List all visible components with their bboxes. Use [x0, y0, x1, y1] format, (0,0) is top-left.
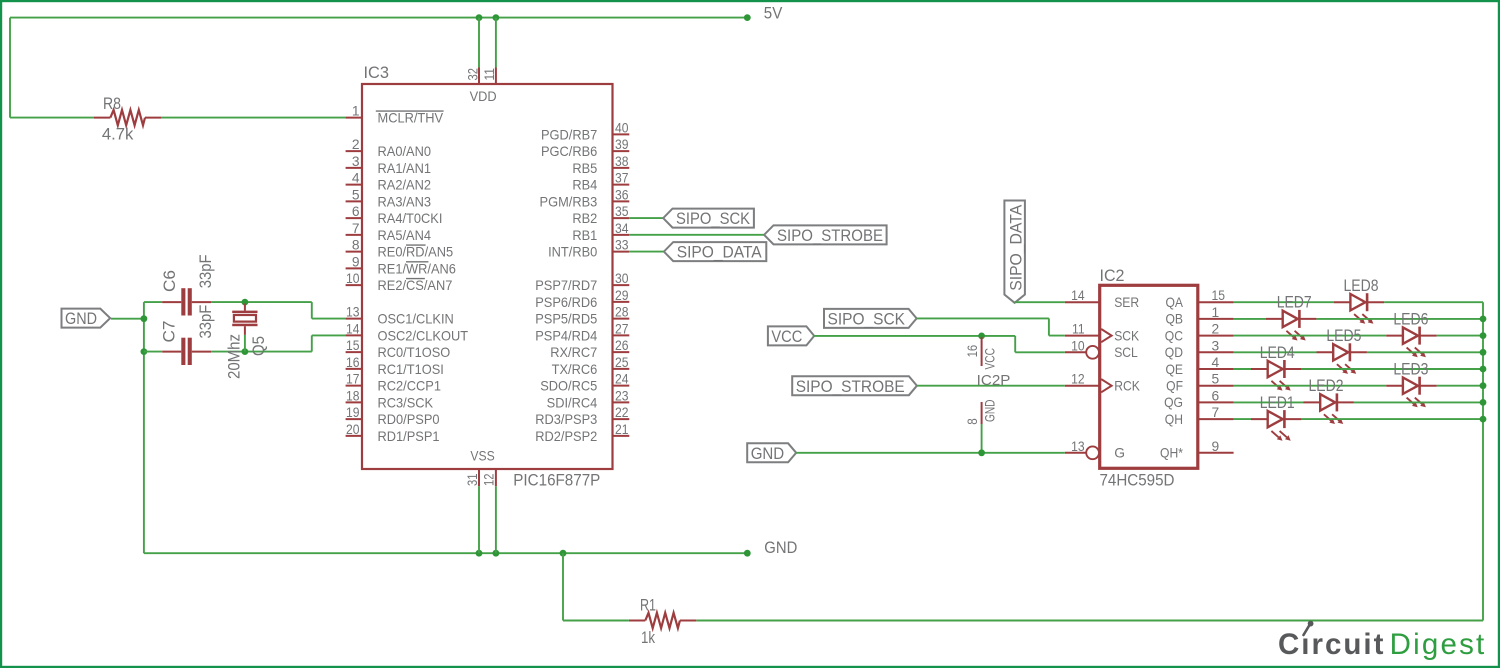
supply flag GND at IC2 [747, 443, 796, 463]
IC body IC2 74HC595D [1100, 285, 1198, 468]
svg-text:RD2/PSP2: RD2/PSP2 [535, 429, 597, 444]
svg-text:PSP4/RD4: PSP4/RD4 [535, 328, 597, 343]
label LED4 [1260, 343, 1295, 362]
svg-text:R1: R1 [640, 595, 656, 614]
svg-text:RD1/PSP1: RD1/PSP1 [378, 429, 440, 444]
svg-text:LED1: LED1 [1260, 393, 1295, 412]
svg-text:33pF: 33pF [196, 305, 215, 339]
IC3 pin 7 RA5/AN4 [346, 221, 432, 243]
svg-text:RB2: RB2 [572, 211, 597, 226]
IC3 pin 32 VDD [465, 68, 480, 85]
label LED7 [1277, 293, 1312, 312]
svg-text:SIPO_STROBE: SIPO_STROBE [796, 377, 905, 396]
svg-text:QB: QB [1165, 312, 1183, 327]
wire SIPO_DATA to SER [1015, 301, 1065, 303]
capacitor C6 [162, 288, 211, 315]
net flag SIPO_DATA at IC3 [664, 242, 766, 262]
label R1 value 1k [641, 628, 655, 647]
diode LED2 [1304, 393, 1354, 424]
svg-text:6: 6 [352, 204, 360, 219]
svg-text:2: 2 [352, 137, 360, 152]
svg-text:17: 17 [346, 372, 360, 387]
svg-text:PIC16F877P: PIC16F877P [513, 471, 600, 490]
svg-text:GND: GND [764, 538, 797, 557]
net flag SIPO_STROBE at IC3 [764, 225, 887, 245]
svg-text:GND: GND [65, 309, 97, 328]
svg-text:30: 30 [615, 271, 629, 286]
svg-text:QH: QH [1165, 412, 1183, 427]
svg-text:4: 4 [1212, 355, 1220, 370]
wire VSS pins to GND rail [479, 486, 496, 553]
svg-text:RB4: RB4 [572, 178, 597, 193]
net flag SIPO_SCK at IC2 [824, 309, 917, 329]
IC2 pin 2 QC [1165, 322, 1234, 344]
wire SIPO_SCK to SCK pin [917, 318, 1065, 335]
junction 5V pin11 [493, 14, 500, 21]
svg-text:RB1: RB1 [572, 228, 597, 243]
wire GND to G pin [796, 452, 1065, 454]
svg-text:QD: QD [1165, 345, 1183, 360]
label C7 value 33pF [196, 305, 215, 339]
IC3 pin 8 RE0/RD/AN5 [346, 238, 454, 260]
net flag SIPO_STROBE at IC2 [792, 376, 917, 396]
IC3 pin 20 RD1/PSP1 [346, 422, 440, 444]
svg-text:25: 25 [615, 355, 629, 370]
svg-text:LED4: LED4 [1260, 343, 1295, 362]
diode LED1 [1251, 410, 1301, 441]
svg-text:RA1/AN1: RA1/AN1 [378, 161, 431, 176]
svg-text:Cırcuit: Cırcuit [1278, 628, 1385, 661]
svg-text:IC3: IC3 [364, 63, 390, 82]
wire 5V rail [10, 17, 747, 19]
IC3 pin 3 RA1/AN1 [346, 154, 431, 176]
wire C6 rail [144, 302, 346, 319]
svg-text:G: G [1114, 446, 1125, 461]
svg-text:RC1/T1OSI: RC1/T1OSI [378, 362, 444, 377]
junction C7 left [141, 348, 148, 355]
svg-text:VSS: VSS [470, 449, 494, 464]
svg-text:LED3: LED3 [1393, 360, 1428, 379]
svg-text:20: 20 [346, 422, 360, 437]
svg-text:8: 8 [352, 238, 360, 253]
IC2 pin 6 QG [1164, 388, 1233, 410]
label IC2 [1100, 266, 1125, 285]
svg-text:5: 5 [1212, 372, 1220, 387]
svg-text:3: 3 [352, 154, 360, 169]
svg-text:PSP5/RD5: PSP5/RD5 [535, 312, 597, 327]
svg-text:INT/RB0: INT/RB0 [548, 245, 598, 260]
svg-text:RCK: RCK [1114, 379, 1140, 394]
svg-text:35: 35 [615, 204, 629, 219]
svg-text:24: 24 [615, 372, 629, 387]
svg-text:RA3/AN3: RA3/AN3 [378, 194, 432, 209]
svg-text:LED6: LED6 [1393, 309, 1428, 328]
logo CircuitDigest [1278, 621, 1486, 661]
svg-text:LED7: LED7 [1277, 293, 1312, 312]
svg-text:12: 12 [1071, 372, 1085, 387]
svg-text:16: 16 [346, 355, 360, 370]
IC3 pin 14 OSC2/CLKOUT [346, 321, 469, 343]
svg-text:Digest: Digest [1390, 628, 1487, 661]
wire INT/RB0 to SIPO_DATA [629, 251, 664, 253]
svg-text:31: 31 [465, 474, 480, 487]
svg-text:RA5/AN4: RA5/AN4 [378, 228, 432, 243]
svg-text:PSP7/RD7: PSP7/RD7 [535, 278, 597, 293]
wire LED7 row [1234, 318, 1483, 320]
label PIC16F877P [513, 471, 600, 490]
IC3 pin 21 RD2/PSP2 [535, 422, 629, 444]
IC3 pin 40 PGD/RB7 [541, 120, 629, 142]
wire bus to R1 [696, 620, 1483, 622]
IC2 pin 3 QD [1165, 338, 1234, 360]
junction VCC pin16 [978, 333, 985, 340]
svg-text:IC2P: IC2P [977, 373, 1011, 389]
IC3 pin 30 PSP7/RD7 [535, 271, 629, 293]
svg-text:RE0/RD/AN5: RE0/RD/AN5 [378, 245, 454, 260]
svg-text:33: 33 [615, 238, 629, 253]
svg-text:14: 14 [1071, 288, 1085, 303]
svg-text:3: 3 [1212, 338, 1220, 353]
svg-text:18: 18 [346, 388, 360, 403]
svg-text:SER: SER [1114, 295, 1139, 310]
IC3 pin 31 VSS [465, 469, 480, 486]
IC3 pin 17 RC2/CCP1 [346, 372, 441, 394]
junction GND-C6C7 node A [141, 315, 148, 322]
IC3 pin 4 RA2/AN2 [346, 171, 431, 193]
svg-text:RA0/AN0: RA0/AN0 [378, 144, 432, 159]
svg-text:TX/RC6: TX/RC6 [552, 362, 598, 377]
svg-text:36: 36 [615, 187, 629, 202]
resistor R1 [629, 613, 696, 628]
svg-text:2: 2 [1212, 322, 1220, 337]
junction bus row 3 [1480, 349, 1487, 356]
svg-text:LED2: LED2 [1309, 376, 1344, 395]
junction bus row 7 [1480, 416, 1487, 423]
svg-text:GND: GND [751, 444, 785, 463]
wire C7 rail [144, 335, 346, 351]
label R8 value 4.7k [102, 125, 134, 144]
svg-text:9: 9 [352, 254, 360, 269]
svg-text:VCC: VCC [983, 348, 998, 370]
junction GND-R1 branch [560, 550, 567, 557]
svg-text:7: 7 [1212, 405, 1220, 420]
IC3 pin 12 VSS [482, 469, 497, 486]
label Q5 [249, 336, 268, 356]
IC3 pin 28 PSP5/RD5 [535, 305, 629, 327]
svg-text:QF: QF [1166, 379, 1183, 394]
wire GND flag to node [111, 318, 144, 320]
svg-text:SIPO_SCK: SIPO_SCK [828, 310, 906, 329]
svg-text:VCC: VCC [771, 327, 802, 346]
IC2 pin 4 QE [1165, 355, 1233, 377]
svg-text:SCK: SCK [1114, 328, 1140, 343]
junction bus row 4 [1480, 366, 1487, 373]
supply flag GND left [62, 309, 111, 329]
wire LED cathode bus [1482, 302, 1484, 620]
label LED1 [1260, 393, 1295, 412]
svg-text:SIPO_STROBE: SIPO_STROBE [777, 226, 883, 245]
op-amp-style IC body U IC3 [362, 84, 613, 469]
svg-text:6: 6 [1212, 388, 1220, 403]
IC3 pin 23 SDI/RC4 [547, 388, 630, 410]
label Q5 value 20Mhz [225, 334, 244, 379]
svg-text:13: 13 [1071, 439, 1085, 454]
svg-text:LED5: LED5 [1326, 326, 1361, 345]
svg-text:R8: R8 [103, 94, 121, 113]
wire RB2 to SIPO_SCK [629, 217, 663, 219]
svg-text:33pF: 33pF [196, 254, 215, 288]
svg-text:1: 1 [1212, 305, 1220, 320]
svg-text:10: 10 [346, 271, 360, 286]
svg-text:28: 28 [615, 305, 629, 320]
junction bus row 6 [1480, 399, 1487, 406]
IC2 pin 10 SCL [1065, 338, 1138, 360]
net flag SIPO_SCK at IC3 [663, 209, 754, 229]
svg-text:RD0/PSP0: RD0/PSP0 [378, 412, 440, 427]
svg-text:11: 11 [482, 68, 497, 81]
junction OSC1-crystal [242, 299, 249, 306]
svg-text:4: 4 [352, 171, 360, 186]
svg-text:MCLR/THV: MCLR/THV [378, 111, 444, 126]
svg-text:SIPO_SCK: SIPO_SCK [676, 209, 751, 228]
IC3 pin 38 RB5 [572, 154, 629, 176]
svg-text:PGC/RB6: PGC/RB6 [541, 144, 598, 159]
IC3 pin 10 RE2/CS/AN7 [346, 271, 453, 293]
label LED3 [1393, 360, 1428, 379]
IC3 pin 11 VDD [482, 68, 497, 85]
wire SIPO_STROBE to RCK pin [917, 385, 1065, 387]
svg-text:SDO/RC5: SDO/RC5 [540, 379, 597, 394]
svg-text:74HC595D: 74HC595D [1100, 471, 1175, 490]
label C6 value 33pF [196, 254, 215, 288]
IC3 pin 2 RA0/AN0 [346, 137, 432, 159]
svg-text:QH*: QH* [1160, 446, 1183, 461]
label LED6 [1393, 309, 1428, 328]
wire LED1 row [1234, 418, 1483, 420]
IC3 pin 19 RD0/PSP0 [346, 405, 440, 427]
svg-text:12: 12 [482, 474, 497, 487]
svg-text:SIPO_DATA: SIPO_DATA [677, 243, 763, 262]
IC3 pin 1 MCLR/THV [346, 104, 444, 126]
diode LED3 [1386, 377, 1436, 408]
wire LED4 row [1234, 368, 1483, 370]
svg-text:PGM/RB3: PGM/RB3 [540, 194, 598, 209]
IC3 pin 22 RD3/PSP3 [535, 405, 629, 427]
svg-text:10: 10 [1071, 338, 1085, 353]
svg-text:38: 38 [615, 154, 629, 169]
IC2P pin 8 GND [965, 399, 998, 424]
resistor R8 [94, 110, 161, 125]
svg-text:PGD/RB7: PGD/RB7 [541, 127, 597, 142]
IC3 pin 37 RB4 [572, 171, 629, 193]
IC2 pin 1 QB [1165, 305, 1233, 327]
svg-text:16: 16 [965, 345, 980, 358]
svg-text:39: 39 [615, 137, 629, 152]
label LED8 [1344, 276, 1379, 295]
svg-text:VDD: VDD [470, 89, 497, 104]
wire R1 to GND rail [563, 553, 629, 620]
supply flag VCC [768, 326, 814, 346]
svg-text:29: 29 [615, 288, 629, 303]
IC3 pin 5 RA3/AN3 [346, 187, 432, 209]
IC3 pin 34 RB1 [572, 221, 629, 243]
svg-text:RA4/T0CKI: RA4/T0CKI [378, 211, 443, 226]
svg-text:21: 21 [615, 422, 629, 437]
junction 5V pin32 [476, 14, 483, 21]
svg-text:5V: 5V [764, 4, 783, 23]
junction GND end [744, 550, 751, 557]
IC2 pin 13 G [1065, 439, 1125, 461]
wire R8 to IC3 pin1 [161, 117, 345, 119]
label 74HC595D [1100, 471, 1175, 490]
wire VCC to SCL pin [814, 336, 1065, 352]
svg-text:5: 5 [352, 187, 360, 202]
IC3 pin 16 RC1/T1OSI [346, 355, 444, 377]
junction bus row 5 [1480, 382, 1487, 389]
svg-text:9: 9 [1212, 439, 1220, 454]
svg-text:RC2/CCP1: RC2/CCP1 [378, 379, 441, 394]
label R8 [103, 94, 121, 113]
svg-text:1: 1 [352, 104, 360, 119]
svg-text:QE: QE [1165, 362, 1183, 377]
wire VDD pins to 5V rail [479, 18, 496, 68]
junction GND pin8 [978, 449, 985, 456]
IC2 pin 11 SCK [1065, 322, 1140, 344]
label LED5 [1326, 326, 1361, 345]
wire LED2 row [1234, 401, 1483, 403]
crystal Q5 [232, 304, 257, 335]
diode LED4 [1251, 360, 1301, 391]
label IC2P [977, 373, 1011, 389]
IC3 pin 18 RC3/SCK [346, 388, 434, 410]
junction bus row 2 [1480, 332, 1487, 339]
svg-text:RA2/AN2: RA2/AN2 [378, 178, 431, 193]
svg-text:26: 26 [615, 338, 629, 353]
junction OSC2-crystal [242, 348, 249, 355]
wire LED3 row [1234, 385, 1483, 387]
svg-text:RD3/PSP3: RD3/PSP3 [535, 412, 597, 427]
svg-text:8: 8 [965, 418, 980, 425]
wire LED8 row [1234, 301, 1483, 303]
junction GND pin31 [476, 550, 483, 557]
label C7 [160, 321, 179, 343]
svg-text:OSC2/CLKOUT: OSC2/CLKOUT [378, 328, 469, 343]
svg-text:PSP6/RD6: PSP6/RD6 [535, 295, 597, 310]
svg-text:SIPO_DATA: SIPO_DATA [1006, 204, 1025, 291]
IC3 pin 27 PSP4/RD4 [535, 321, 629, 343]
svg-text:11: 11 [1072, 322, 1085, 337]
svg-text:23: 23 [615, 388, 629, 403]
IC2 pin 5 QF [1166, 372, 1233, 394]
net flag SIPO_DATA vertical [1004, 201, 1025, 303]
label 5V [764, 4, 783, 23]
svg-text:32: 32 [465, 68, 480, 81]
label R1 [640, 595, 656, 614]
svg-text:20Mhz: 20Mhz [225, 334, 244, 379]
wire crystal to OSC2 rail [244, 335, 246, 352]
junction bus row 1 [1480, 316, 1487, 323]
svg-text:RC0/T1OSO: RC0/T1OSO [378, 345, 451, 360]
label VSS [470, 449, 494, 464]
wire LED6 row [1234, 335, 1483, 337]
svg-text:4.7k: 4.7k [102, 125, 134, 144]
svg-text:RE1/WR/AN6: RE1/WR/AN6 [378, 261, 457, 276]
svg-text:RE2/CS/AN7: RE2/CS/AN7 [378, 278, 453, 293]
IC3 pin 13 OSC1/CLKIN [346, 305, 454, 327]
IC2 pin 14 SER [1065, 288, 1139, 310]
svg-text:7: 7 [352, 221, 360, 236]
diode LED8 [1334, 293, 1384, 324]
IC2 pin 9 QH* [1160, 439, 1234, 461]
svg-text:40: 40 [615, 120, 629, 135]
svg-text:GND: GND [983, 399, 998, 422]
svg-text:QA: QA [1165, 295, 1183, 310]
wire 5V left drop [10, 18, 94, 118]
svg-text:27: 27 [615, 321, 629, 336]
IC3 pin 6 RA4/T0CKI [346, 204, 443, 226]
IC2P pin 16 VCC [965, 337, 998, 370]
diode LED5 [1317, 343, 1367, 374]
label IC3 [364, 63, 390, 82]
IC2 pin 7 QH [1165, 405, 1234, 427]
svg-text:37: 37 [615, 171, 629, 186]
IC3 pin 24 SDO/RC5 [540, 372, 629, 394]
diode LED7 [1266, 310, 1316, 341]
capacitor C7 [162, 338, 211, 365]
svg-text:RC3/SCK: RC3/SCK [378, 395, 434, 410]
svg-text:C7: C7 [160, 321, 179, 343]
IC3 pin 36 PGM/RB3 [540, 187, 630, 209]
IC3 pin 35 RB2 [572, 204, 629, 226]
svg-text:1k: 1k [641, 628, 655, 647]
wire GND left vertical [143, 302, 145, 553]
svg-text:19: 19 [346, 405, 360, 420]
svg-text:34: 34 [615, 221, 629, 236]
IC2 pin 15 QA [1165, 288, 1233, 310]
svg-text:QG: QG [1164, 395, 1183, 410]
IC3 pin 15 RC0/T1OSO [346, 338, 451, 360]
label VDD [470, 89, 497, 104]
svg-text:C6: C6 [160, 270, 179, 292]
label LED2 [1309, 376, 1344, 395]
junction 5V end [744, 14, 751, 21]
svg-text:15: 15 [346, 338, 360, 353]
IC3 pin 9 RE1/WR/AN6 [346, 254, 457, 276]
svg-text:LED8: LED8 [1344, 276, 1379, 295]
label GND rail [764, 538, 797, 557]
svg-text:22: 22 [615, 405, 629, 420]
svg-text:15: 15 [1212, 288, 1226, 303]
svg-text:OSC1/CLKIN: OSC1/CLKIN [378, 312, 454, 327]
IC3 pin 25 TX/RC6 [552, 355, 630, 377]
wire GND bottom rail [144, 552, 747, 554]
IC3 pin 33 INT/RB0 [548, 238, 629, 260]
label C6 [160, 270, 179, 292]
svg-text:SDI/RC4: SDI/RC4 [547, 395, 598, 410]
wire pin8 to GND wire [981, 424, 983, 453]
junction GND pin12 [493, 550, 500, 557]
svg-text:14: 14 [346, 321, 360, 336]
wire LED5 row [1234, 351, 1483, 353]
svg-text:QC: QC [1165, 328, 1183, 343]
IC3 pin 39 PGC/RB6 [541, 137, 629, 159]
svg-text:13: 13 [346, 305, 360, 320]
svg-text:IC2: IC2 [1100, 266, 1125, 285]
IC3 pin 26 RX/RC7 [550, 338, 629, 360]
svg-text:Q5: Q5 [249, 336, 268, 356]
diode LED6 [1386, 327, 1436, 358]
svg-text:RX/RC7: RX/RC7 [550, 345, 597, 360]
